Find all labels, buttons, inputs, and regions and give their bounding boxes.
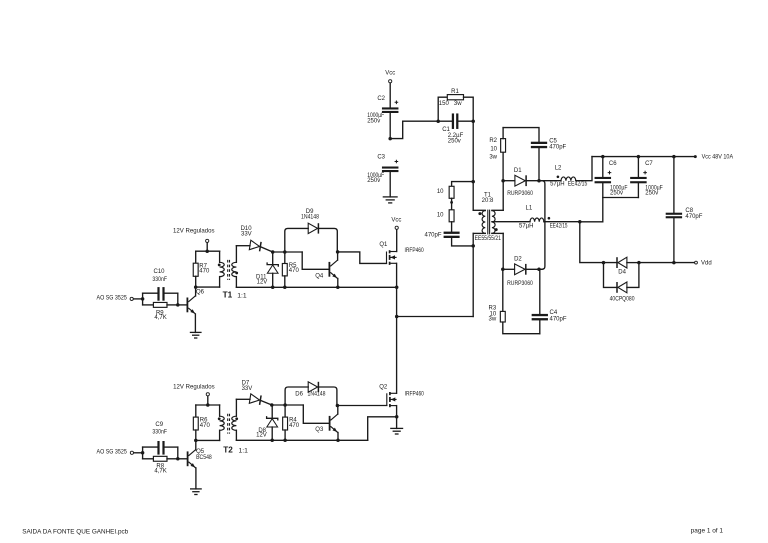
svg-text:T2: T2 — [223, 446, 233, 455]
junction — [395, 286, 399, 290]
wire — [397, 316, 474, 318]
wire — [472, 121, 474, 210]
svg-text:C2: C2 — [377, 96, 385, 102]
junction — [537, 179, 541, 183]
capacitor C7 1000uF 250v — [630, 157, 663, 198]
svg-text:AO SG 3525: AO SG 3525 — [97, 449, 128, 455]
transformer T1 20:8 EE55/55/21 — [473, 192, 503, 242]
wire — [538, 148, 540, 181]
svg-text:250v: 250v — [645, 191, 658, 197]
wire — [627, 262, 639, 264]
svg-text:EE55/55/21: EE55/55/21 — [475, 236, 502, 242]
diode D4 40CPQ080 (dual) — [610, 257, 635, 302]
wire — [134, 452, 143, 454]
svg-text:470pF: 470pF — [424, 232, 441, 238]
svg-text:33V: 33V — [241, 231, 252, 237]
wire — [196, 439, 220, 441]
svg-text:D1: D1 — [514, 168, 522, 174]
svg-text:12V: 12V — [257, 279, 268, 285]
diode D9 1N4148 — [285, 209, 338, 252]
svg-text:1:1: 1:1 — [239, 447, 249, 454]
svg-text:1:1: 1:1 — [237, 293, 247, 300]
junction — [194, 439, 198, 443]
svg-text:470: 470 — [289, 423, 300, 429]
wire — [236, 439, 367, 441]
svg-text:150: 150 — [439, 101, 450, 107]
wire — [451, 198, 453, 210]
junction — [176, 457, 180, 461]
wire — [337, 405, 386, 407]
diode D6 1N4148 — [285, 382, 337, 406]
ground — [383, 196, 398, 198]
node 12V Regulados terminal (lower) — [173, 385, 215, 396]
wire — [389, 83, 391, 107]
junction — [602, 261, 606, 265]
wire — [368, 417, 397, 441]
svg-text:T1: T1 — [223, 291, 233, 300]
svg-text:C1: C1 — [442, 127, 450, 133]
junction — [672, 155, 676, 159]
svg-text:250v: 250v — [448, 138, 461, 144]
wire — [178, 458, 187, 460]
junction — [537, 268, 541, 272]
wire — [459, 120, 474, 122]
svg-text:33V: 33V — [242, 386, 253, 392]
wire — [196, 404, 220, 406]
wire — [396, 263, 398, 393]
wire — [178, 304, 187, 306]
wire — [592, 156, 695, 158]
resistor R9 4,7K — [143, 302, 178, 320]
ground — [190, 331, 202, 333]
capacitor C9 330nF — [143, 422, 178, 459]
svg-text:12V Regulados: 12V Regulados — [173, 228, 215, 234]
svg-text:10: 10 — [490, 146, 497, 152]
svg-text:page 1 of 1: page 1 of 1 — [691, 527, 724, 534]
wire — [396, 406, 398, 429]
svg-text:20:8: 20:8 — [482, 198, 494, 204]
svg-text:AO SG 3525: AO SG 3525 — [97, 296, 128, 302]
svg-text:L1: L1 — [526, 206, 533, 212]
junction — [471, 180, 475, 184]
svg-text:470: 470 — [199, 269, 210, 275]
svg-text:470: 470 — [200, 423, 211, 429]
resistor 10 (snubber upper) — [437, 186, 454, 198]
svg-text:C5: C5 — [549, 138, 557, 144]
svg-text:R2: R2 — [489, 138, 497, 144]
wire — [338, 252, 387, 264]
junction — [270, 403, 274, 407]
capacitor C5 470pF — [531, 138, 567, 150]
wire — [603, 197, 639, 199]
diode D2 RURP3060 — [507, 256, 533, 287]
svg-text:Vcc 48V 10A: Vcc 48V 10A — [702, 155, 734, 161]
wire — [177, 293, 179, 305]
wire — [390, 121, 438, 138]
svg-text:Q3: Q3 — [315, 427, 324, 433]
transistor Q6 — [187, 287, 204, 332]
junction — [336, 286, 340, 290]
capacitor C1 2.2uF 250v — [442, 113, 463, 144]
junction — [283, 286, 287, 290]
node AO SG 3525 input — [97, 296, 134, 302]
svg-text:C6: C6 — [609, 161, 617, 167]
svg-text:C4: C4 — [550, 310, 558, 316]
svg-text:10: 10 — [437, 189, 444, 195]
transformer T2 1:1 (gate drive) — [218, 399, 248, 454]
inductor L1 57uH EE42/15 — [519, 206, 568, 230]
svg-text:Q2: Q2 — [379, 385, 388, 391]
svg-text:470pF: 470pF — [550, 317, 567, 323]
svg-text:Vcc: Vcc — [385, 71, 395, 77]
wire — [544, 221, 580, 223]
transistor Q2 IRFP460 — [379, 385, 424, 408]
junction — [471, 244, 475, 248]
junction — [141, 297, 145, 301]
svg-text:470pF: 470pF — [549, 145, 566, 151]
junction — [395, 315, 399, 319]
svg-text:D4: D4 — [618, 270, 626, 276]
svg-text:Vdd: Vdd — [701, 261, 712, 267]
junction — [271, 250, 275, 254]
node Vdd output terminal — [695, 261, 712, 267]
svg-text:EE42/15: EE42/15 — [568, 182, 588, 188]
junction — [637, 261, 641, 265]
wire — [451, 222, 453, 232]
junction — [578, 220, 582, 224]
diode D7 33V — [236, 380, 271, 405]
junction — [283, 439, 287, 443]
wire — [452, 238, 474, 246]
junction — [271, 286, 275, 290]
diode D1 RURP3060 — [507, 168, 533, 197]
svg-text:R1: R1 — [451, 89, 459, 95]
svg-text:D6: D6 — [295, 392, 303, 398]
wire — [576, 157, 592, 181]
junction — [283, 403, 287, 407]
svg-text:Vcc: Vcc — [391, 218, 401, 224]
svg-text:D2: D2 — [514, 256, 522, 262]
svg-text:12V: 12V — [256, 433, 267, 439]
svg-text:IRFP460: IRFP460 — [405, 391, 425, 397]
wire — [236, 286, 396, 288]
node Vcc 48V 10A output terminal — [694, 155, 733, 161]
capacitor C3 1000uF 250v — [367, 154, 398, 184]
junction — [450, 201, 453, 204]
wire — [196, 286, 220, 288]
capacitor C8 470pF — [666, 157, 703, 263]
wire — [502, 181, 504, 211]
diode D10 33V — [236, 226, 272, 252]
resistor R7 470 — [193, 251, 210, 287]
transistor Q4 — [302, 252, 338, 287]
junction — [206, 403, 210, 407]
svg-text:IRFP460: IRFP460 — [405, 248, 425, 254]
transistor Q5 BC548 — [188, 440, 213, 489]
capacitor C10 330nF — [143, 269, 178, 305]
junction — [176, 303, 180, 307]
wire — [502, 233, 504, 269]
svg-text:4,7K: 4,7K — [154, 315, 166, 321]
junction — [672, 261, 676, 265]
junction — [270, 439, 274, 443]
capacitor C2 1000uF 250v — [367, 96, 398, 125]
svg-text:C3: C3 — [377, 154, 385, 160]
wire — [389, 172, 391, 197]
wire — [272, 404, 304, 406]
svg-text:EE42/15: EE42/15 — [550, 223, 568, 229]
svg-text:3w: 3w — [454, 101, 462, 107]
junction — [388, 137, 392, 141]
wire — [207, 396, 209, 405]
wire — [396, 230, 398, 252]
wire — [452, 182, 474, 187]
svg-text:4,7K: 4,7K — [154, 469, 166, 475]
svg-text:RURP3060: RURP3060 — [507, 191, 533, 197]
wire — [134, 298, 143, 300]
svg-text:Q6: Q6 — [196, 289, 205, 295]
svg-text:Q4: Q4 — [315, 274, 324, 280]
wire — [527, 268, 542, 270]
diode D4 40CPQ080 (lower half) — [604, 263, 639, 293]
capacitor C6 1000uF 250v — [595, 157, 628, 197]
wire — [438, 120, 452, 122]
svg-text:1N4148: 1N4148 — [301, 215, 320, 221]
svg-text:3w: 3w — [489, 154, 497, 160]
ground — [190, 488, 202, 490]
wire — [503, 128, 539, 142]
svg-text:57µH: 57µH — [550, 182, 564, 188]
junction — [471, 119, 475, 123]
node AO SG 3525 input (lower) — [97, 449, 134, 455]
svg-text:BC548: BC548 — [196, 455, 212, 461]
svg-text:L2: L2 — [555, 166, 562, 172]
node Vcc terminal (half-bridge) — [391, 218, 401, 230]
svg-text:250v: 250v — [367, 119, 380, 125]
svg-text:250v: 250v — [610, 191, 623, 197]
wire — [503, 268, 515, 270]
node Vcc input terminal — [385, 71, 395, 83]
junction — [194, 285, 198, 289]
junction — [141, 451, 145, 455]
resistor R2 10 3w — [489, 128, 505, 181]
transformer T1 1:1 (gate drive) — [218, 246, 247, 300]
junction — [501, 179, 505, 183]
wire — [580, 183, 603, 221]
resistor R3 10 3w — [489, 269, 540, 333]
junction — [637, 155, 641, 159]
wire — [503, 180, 515, 182]
svg-text:250v: 250v — [367, 178, 380, 184]
transistor Q1 IRFP460 — [379, 242, 424, 265]
wire — [639, 262, 696, 264]
junction — [283, 250, 287, 254]
junction — [336, 439, 340, 443]
svg-text:12V Regulados: 12V Regulados — [173, 385, 215, 391]
wire — [273, 251, 303, 253]
svg-text:RURP3060: RURP3060 — [507, 281, 533, 287]
svg-text:330nF: 330nF — [152, 277, 167, 283]
junction — [395, 415, 399, 419]
wire — [389, 113, 391, 139]
svg-text:470pF: 470pF — [685, 214, 702, 220]
svg-text:10: 10 — [437, 213, 444, 219]
wire — [196, 250, 220, 252]
capacitor 470pF (snubber) — [424, 232, 459, 239]
resistor 10 (snubber lower) — [437, 210, 454, 222]
svg-text:C10: C10 — [153, 269, 165, 275]
ground — [390, 427, 403, 429]
svg-text:40CPQ080: 40CPQ080 — [610, 296, 635, 302]
resistor R6 470 — [193, 405, 210, 440]
junction — [501, 268, 505, 272]
svg-text:C7: C7 — [645, 161, 653, 167]
svg-text:1N4148: 1N4148 — [308, 392, 327, 398]
svg-text:3w: 3w — [489, 317, 497, 323]
resistor R5 470 — [282, 252, 299, 287]
resistor R4 470 — [283, 405, 300, 440]
svg-text:57µH: 57µH — [519, 223, 533, 229]
wire — [527, 180, 561, 182]
node 12V Regulados terminal — [173, 228, 215, 242]
resistor R1 150 3w — [438, 89, 473, 121]
transistor Q3 — [303, 405, 338, 440]
junction — [336, 404, 340, 408]
wire — [542, 181, 545, 270]
wire — [177, 447, 179, 459]
wire — [206, 243, 208, 252]
svg-text:C9: C9 — [155, 422, 163, 428]
inductor L2 57uH EE42/15 — [550, 166, 588, 188]
svg-text:Q1: Q1 — [379, 242, 388, 248]
diode D11 12V zener — [256, 252, 278, 287]
diode D8 12V zener — [256, 405, 278, 440]
wire — [580, 222, 616, 263]
junction — [205, 249, 209, 253]
resistor R8 4,7K — [143, 456, 178, 474]
svg-text:470: 470 — [289, 268, 300, 274]
junction — [436, 119, 440, 123]
junction — [601, 155, 605, 159]
svg-text:330nF: 330nF — [152, 430, 167, 436]
wire — [472, 233, 474, 316]
svg-text:SAIDA DA FONTE QUE GANHEI.pcb: SAIDA DA FONTE QUE GANHEI.pcb — [22, 528, 128, 535]
capacitor C4 470pF — [532, 269, 567, 333]
wire — [492, 221, 530, 223]
junction — [336, 250, 340, 254]
